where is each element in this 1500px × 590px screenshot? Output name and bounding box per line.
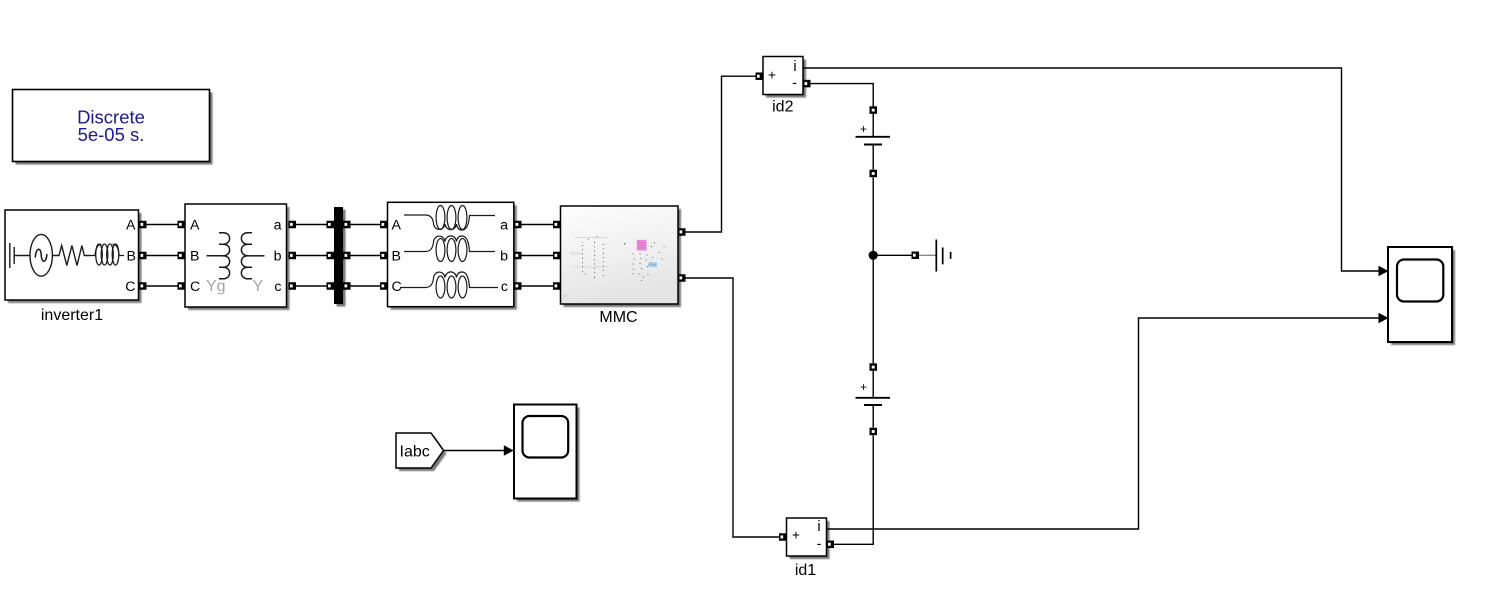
battery2 lead top	[872, 371, 874, 397]
transformer output port b	[289, 252, 297, 260]
wire id2 minus to battery1	[811, 84, 874, 107]
RL input port A	[380, 221, 388, 229]
svg-text:A: A	[126, 218, 136, 234]
wire bus to RL B	[351, 255, 381, 257]
wire RL c to MMC	[522, 285, 554, 287]
wire transformer a to bus	[296, 224, 327, 226]
wire bus to RL A	[351, 224, 381, 226]
svg-text:B: B	[392, 249, 401, 265]
wire transformer c to bus	[296, 285, 327, 287]
battery2 lead bottom	[872, 405, 874, 428]
bus input port A	[327, 221, 335, 229]
id1 minus port	[827, 541, 835, 549]
svg-text:-: -	[817, 536, 822, 552]
three-phase bus bar	[334, 207, 346, 307]
svg-text:inverter1: inverter1	[41, 307, 103, 324]
transformer block (Yg/Y)	[185, 204, 290, 310]
svg-text:c: c	[501, 279, 508, 295]
inverter1 output port A	[139, 221, 147, 229]
arrowhead scope input 1	[1379, 266, 1389, 276]
svg-text:A: A	[392, 218, 402, 234]
DC source battery1	[856, 106, 891, 177]
svg-text:i: i	[793, 59, 796, 75]
inverter1 sine symbol	[35, 249, 47, 261]
scope screen (right scope)	[1397, 260, 1443, 302]
MMC blue icon block	[648, 262, 657, 267]
svg-text:B: B	[190, 249, 199, 265]
battery2 top port	[870, 363, 878, 371]
RL output port a	[514, 221, 522, 229]
transformer right winding	[241, 233, 264, 279]
wire battery2 down to id1 minus	[834, 435, 873, 544]
bus input port B	[327, 252, 335, 260]
wire inverter1 C to transformer C	[147, 285, 179, 287]
inverter1 inductor	[90, 244, 124, 265]
svg-text:MMC: MMC	[599, 309, 637, 326]
transformer input port C	[178, 282, 186, 290]
battery2 bottom port	[870, 428, 878, 436]
battery1 long plate	[856, 136, 891, 138]
junction node dot	[869, 251, 878, 260]
wire battery1 to battery2 (through junction)	[872, 177, 874, 363]
svg-text:+: +	[768, 68, 776, 83]
transformer output port c	[289, 282, 297, 290]
arrowhead scope input 2	[1379, 313, 1389, 323]
battery1 bottom port	[870, 170, 878, 178]
scope block (bottom middle)	[514, 405, 580, 502]
wire bus to RL C	[351, 285, 381, 287]
MMC input port C	[553, 282, 561, 290]
bus output port A	[343, 221, 351, 229]
battery2 short plate	[864, 404, 882, 406]
current measurement block id2	[763, 57, 806, 98]
transformer input port B	[178, 252, 186, 260]
scope screen (bottom scope)	[523, 416, 569, 458]
inverter1 output port B	[139, 252, 147, 260]
id2 input port	[756, 72, 764, 80]
svg-text:+: +	[792, 528, 800, 543]
MMC pink icon block	[637, 240, 647, 251]
RL input port B	[380, 252, 388, 260]
MMC output port 2	[678, 274, 686, 282]
arrowhead scope1 input	[504, 445, 514, 455]
svg-text:C: C	[190, 279, 200, 295]
svg-text:b: b	[274, 249, 282, 265]
id1 input port	[779, 533, 787, 541]
RL inductor phase A	[404, 206, 495, 231]
wire Iabc to scope1	[444, 450, 505, 452]
DC source battery2	[856, 363, 891, 435]
MMC input port B	[553, 252, 561, 260]
ground symbol	[919, 240, 951, 272]
battery1 lead top	[872, 114, 874, 136]
battery1 top port	[870, 106, 878, 114]
svg-text:5e-05 s.: 5e-05 s.	[78, 124, 145, 145]
svg-text:A: A	[190, 218, 200, 234]
From tag Iabc	[396, 433, 447, 471]
bus input port C	[327, 282, 335, 290]
right cluster dots	[624, 243, 665, 282]
RL output port b	[514, 252, 522, 260]
three-phase RL branch block	[388, 202, 517, 309]
current measurement block id1	[787, 518, 830, 559]
inverter1 resistor	[52, 246, 90, 266]
powergui block "Discrete 5e-05 s."	[13, 90, 213, 165]
scope block (right)	[1388, 247, 1455, 345]
svg-text:Yg: Yg	[206, 278, 226, 295]
wire inverter1 B to transformer B	[147, 255, 179, 257]
svg-text:a: a	[500, 218, 508, 234]
svg-text:Iabc: Iabc	[400, 444, 430, 461]
bus output port C	[343, 282, 351, 290]
MMC subsystem block	[561, 206, 682, 307]
MMC input port A	[553, 221, 561, 229]
inverter1 output port C	[139, 282, 147, 290]
faint horizontal guide lines	[574, 237, 608, 239]
svg-text:B: B	[127, 249, 136, 265]
svg-text:C: C	[125, 279, 135, 295]
battery1 lead bottom	[872, 145, 874, 170]
transformer output port a	[289, 221, 297, 229]
svg-text:Y: Y	[253, 278, 264, 295]
inverter1 AC source circle	[30, 234, 52, 276]
svg-text:a: a	[274, 218, 282, 234]
wire MMC out1 to id2 input	[686, 76, 756, 232]
svg-text:i: i	[817, 519, 820, 535]
battery2 long plate	[856, 397, 891, 399]
MMC icon preview content	[564, 236, 665, 297]
wire RL b to MMC	[522, 255, 554, 257]
ground port	[912, 252, 920, 260]
RL output port c	[514, 282, 522, 290]
wire id2 i output to scope input 1	[803, 68, 1379, 271]
id2 minus port	[803, 80, 811, 88]
RL inductor phase B	[404, 236, 495, 262]
battery1 short plate	[864, 144, 882, 146]
RL input port C	[380, 282, 388, 290]
wire id1 i output to scope input 2	[826, 318, 1378, 529]
svg-text:b: b	[500, 249, 508, 265]
inverter1 internal battery bars	[10, 243, 30, 268]
wire inverter1 A to transformer A	[147, 224, 179, 226]
RL inductor phase C	[400, 272, 498, 298]
svg-text:+: +	[860, 122, 867, 136]
svg-text:-: -	[792, 76, 797, 92]
wire junction to ground port	[873, 254, 911, 256]
bus output port B	[343, 252, 351, 260]
block inverter1	[5, 210, 142, 303]
wire transformer b to bus	[296, 255, 327, 257]
transformer input port A	[178, 221, 186, 229]
wire RL a to MMC	[522, 224, 554, 226]
svg-text:id2: id2	[772, 99, 793, 116]
svg-text:id1: id1	[795, 562, 816, 579]
dotted vertical columns	[582, 236, 665, 281]
transformer left winding	[207, 233, 230, 279]
wire MMC out2 to id1 input	[686, 278, 780, 537]
svg-text:c: c	[274, 279, 281, 295]
MMC output port 1	[678, 228, 686, 236]
svg-text:+: +	[860, 380, 867, 394]
